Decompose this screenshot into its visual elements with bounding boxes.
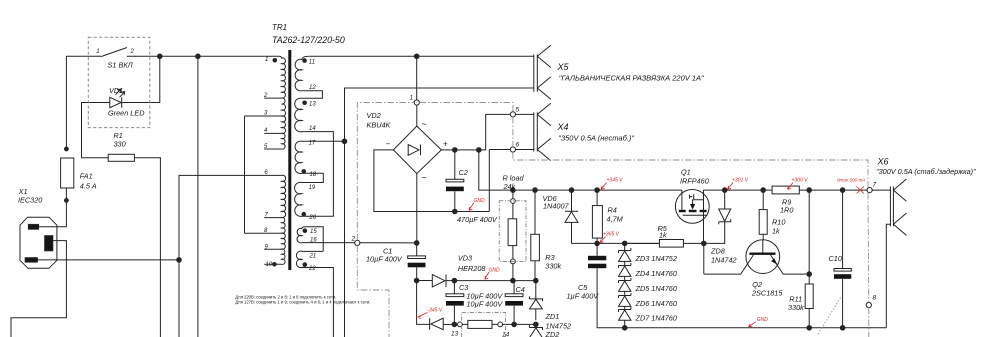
svg-text:14: 14 [309, 126, 316, 132]
junction emitter R11 [807, 272, 812, 277]
svg-text:1k: 1k [772, 227, 780, 236]
junction ZD8 top [722, 188, 727, 193]
wire VD4 to circle13 [443, 323, 457, 325]
wire pin16 to node2 [302, 242, 415, 244]
LED VD1 [110, 97, 122, 107]
svg-text:1: 1 [96, 49, 99, 55]
svg-text:4,7M: 4,7M [607, 215, 624, 224]
switch S1 [103, 48, 127, 56]
svg-text:TR1: TR1 [272, 23, 287, 32]
X1 pin middle [45, 236, 53, 251]
svg-text:1k: 1k [659, 231, 667, 240]
svg-text:13: 13 [451, 331, 459, 337]
red marks [418, 183, 864, 327]
node 5 circle [510, 112, 515, 117]
resistor R load [512, 203, 514, 259]
primary pin numbers [263, 57, 273, 268]
wire node6 to X4 [489, 150, 534, 212]
leader +301 [728, 183, 734, 190]
zener stack wire [624, 243, 626, 327]
svg-text:4.5 A: 4.5 A [80, 182, 97, 191]
svg-text:330: 330 [114, 140, 126, 149]
leader +365 [600, 237, 606, 243]
wire rail switch to transformer pin1 [127, 55, 279, 57]
wire rail-dot down crossing to bottom [197, 56, 199, 337]
svg-text:~: ~ [422, 173, 427, 183]
svg-text:1µF 400V: 1µF 400V [567, 292, 600, 301]
zener ZD7 [619, 307, 631, 320]
svg-text:Q1: Q1 [681, 168, 691, 177]
svg-text:+300 V: +300 V [792, 177, 809, 183]
wire bridge minus wrap to gnd rail [374, 150, 489, 212]
secondary winding W3 pins 17-18 [295, 141, 310, 173]
svg-text:16: 16 [310, 237, 317, 243]
svg-text:Для 127В: соединить 1 и 9; сое: Для 127В: соединить 1 и 9; соединить 4 и… [235, 300, 370, 305]
svg-text:VD2: VD2 [367, 111, 381, 120]
diode VD6 [565, 211, 578, 222]
capacitor C5 [588, 256, 606, 260]
wire X1 bottom pin to junction [37, 259, 179, 261]
leader -345 [418, 313, 428, 319]
wire pin17 down to bottom [344, 141, 346, 337]
pin7 circle [867, 188, 872, 193]
+345 rail [479, 150, 682, 190]
wire R1 right down to bottom [134, 158, 160, 337]
svg-text:GND: GND [489, 268, 501, 274]
wire bridge plus [441, 114, 533, 149]
svg-text:21: 21 [309, 253, 317, 259]
zener ZD1 [529, 296, 542, 301]
secondary winding W5 pins 15-16 link over to 21 [302, 227, 323, 252]
svg-text:X4: X4 [557, 122, 569, 132]
svg-text:S1 ВКЛ: S1 ВКЛ [108, 60, 134, 69]
svg-text:2SC1815: 2SC1815 [751, 289, 783, 298]
secondary winding W6 pins 21-22 [296, 251, 323, 267]
diode VD3 [432, 275, 446, 288]
svg-text:ZD3 1N4752: ZD3 1N4752 [635, 254, 677, 263]
pin10 stub [264, 263, 281, 265]
svg-text:+301 V: +301 V [732, 177, 749, 183]
phase dot pin22 [303, 262, 308, 267]
svg-text:470µF 400V: 470µF 400V [457, 215, 498, 224]
svg-text:HER208: HER208 [458, 264, 487, 273]
phase dot pin13 [302, 101, 307, 106]
pin5 stub [264, 148, 281, 150]
svg-text:-345 V: -345 V [428, 308, 443, 314]
svg-text:2: 2 [130, 49, 135, 55]
svg-text:C4: C4 [516, 285, 525, 294]
svg-text:11: 11 [309, 59, 315, 65]
phase dot pin10 [272, 262, 277, 267]
junction C1 bottom [414, 278, 419, 283]
svg-text:C2: C2 [459, 168, 468, 177]
svg-text:1: 1 [265, 57, 268, 63]
junction C10 top [840, 188, 845, 193]
svg-text:14: 14 [502, 332, 510, 337]
svg-text:10: 10 [266, 262, 273, 268]
red voltage labels [428, 177, 866, 322]
svg-text:0max 500 mA: 0max 500 mA [837, 178, 865, 183]
pin3 stub to bracket [245, 115, 282, 117]
resistor R5 [625, 242, 704, 244]
wire fuse to X1 top pin [39, 188, 67, 227]
bridge rectifier VD2 diamond [393, 126, 441, 174]
wire gate to Q2 collector [703, 243, 705, 274]
svg-text:ZD8: ZD8 [710, 247, 726, 256]
svg-text:330k: 330k [788, 303, 804, 312]
svg-text:~: ~ [422, 119, 427, 129]
R load bottom circle [511, 259, 516, 264]
svg-text:C10: C10 [829, 254, 842, 263]
transistor Q2 [746, 240, 780, 274]
svg-text:TA262-127/220-50: TA262-127/220-50 [272, 35, 345, 45]
pin2 stub [264, 97, 281, 99]
link pins 18-19 [310, 173, 324, 182]
phase dot pin11 [302, 58, 307, 63]
leader GND2 [485, 272, 489, 279]
phase dot pin15 [303, 228, 308, 233]
svg-text:KBU4K: KBU4K [367, 121, 392, 130]
capacitor C4 [505, 294, 523, 297]
wire X1 middle pin down and left [11, 241, 66, 337]
wire bridge bottom to node2 line [416, 174, 418, 243]
bridge inner diode [408, 145, 420, 156]
leader GND1 [469, 203, 474, 210]
svg-text:20: 20 [308, 215, 316, 221]
junction R10 top [761, 188, 766, 193]
link pins 14-20 [310, 132, 334, 217]
svg-text:"300V 0.5A (стаб./задержка)": "300V 0.5A (стаб./задержка)" [876, 167, 976, 176]
R3 column [533, 188, 538, 193]
wire top rail from fuse to switch [66, 56, 103, 149]
svg-text:ZD2: ZD2 [545, 330, 560, 337]
phase dot pin20 [302, 212, 307, 217]
svg-text:2: 2 [263, 93, 268, 99]
primary winding B pins6-10 [282, 175, 286, 264]
bracket wire pin3 to pin8 [244, 116, 246, 233]
connector X6 [890, 187, 893, 227]
svg-text:24k: 24k [503, 182, 516, 191]
wire VD1 anode to R1 [82, 103, 110, 158]
wire VD3 to R3 column [446, 280, 536, 282]
svg-text:"ГАЛЬВАНИЧЕСКАЯ РАЗВЯЗКА 220V: "ГАЛЬВАНИЧЕСКАЯ РАЗВЯЗКА 220V 1А" [559, 74, 704, 83]
R load column [511, 188, 516, 193]
svg-text:X6: X6 [877, 157, 889, 167]
connector X4 [534, 112, 538, 151]
zener ZD3 [619, 248, 631, 266]
capacitor C2 [446, 179, 464, 182]
dash-dot box R load [499, 201, 526, 262]
leader +300 [788, 183, 794, 190]
secondary winding W1 pins 11-12 [295, 56, 309, 91]
wire pin17 junction [310, 140, 345, 142]
MOSFET Q1 [675, 190, 709, 224]
wire pin22 down [310, 268, 334, 337]
capacitor C3 [446, 294, 464, 297]
wire rail to X6 pin7 [843, 189, 891, 191]
wire X5 second pin from pin17 [345, 88, 534, 141]
wire minus345 branch [417, 281, 430, 325]
dash-dot module boundary [357, 103, 869, 337]
svg-text:22: 22 [308, 266, 316, 272]
capacitor C10 [834, 269, 851, 272]
X1 pin top [28, 224, 38, 229]
junction VD3 C3 [452, 278, 457, 283]
svg-text:12: 12 [309, 85, 316, 91]
svg-text:VD1: VD1 [109, 86, 123, 95]
secondary winding W2 pins 13-14 [295, 98, 310, 132]
svg-text:1N4007: 1N4007 [543, 202, 570, 211]
secondary winding W4 pins 19-20 [295, 182, 310, 216]
svg-text:+: + [443, 140, 448, 149]
secondary pin numbers [308, 59, 317, 272]
resistor R2 [462, 323, 497, 325]
svg-text:+365 V: +365 V [603, 232, 620, 238]
svg-text:8: 8 [873, 295, 877, 302]
pin9 stub [264, 248, 281, 250]
svg-text:R10: R10 [772, 218, 785, 227]
svg-text:1R0: 1R0 [780, 206, 793, 215]
resistor R11 [808, 274, 810, 328]
Q1 source rail out [704, 190, 773, 243]
dashed box S1 VD1 [88, 37, 150, 127]
svg-text:X5: X5 [557, 62, 570, 72]
svg-text:−: − [386, 140, 391, 149]
svg-text:6: 6 [516, 142, 520, 149]
resistor R4 [596, 190, 598, 243]
junction C3 bottom [452, 322, 457, 327]
primary winding A pins1-5 [279, 56, 286, 149]
svg-text:ZD4 1N4760: ZD4 1N4760 [635, 269, 677, 278]
svg-text:VD3: VD3 [458, 254, 472, 263]
phase dot pin1 [273, 58, 278, 63]
VD6 column [569, 188, 574, 193]
node 1 circle [414, 100, 419, 105]
wire pin11 rail to bridge and X5 [310, 55, 534, 57]
X1 pin bottom [25, 258, 37, 262]
junction C1 top [414, 241, 419, 246]
wire 14 to C4 bottom [503, 323, 536, 325]
svg-text:+345 V: +345 V [607, 177, 624, 183]
pin4 stub [264, 132, 281, 134]
dashed box R2 [462, 313, 506, 337]
link pins 12-13 [310, 91, 323, 99]
svg-text:"350V 0.5A (нестаб.)": "350V 0.5A (нестаб.)" [558, 133, 634, 142]
svg-text:1N4742: 1N4742 [711, 256, 737, 265]
zener ZD8 [719, 209, 731, 221]
transformer TR1 core [288, 50, 291, 270]
junction +345 drop [477, 148, 482, 153]
measurement cross X6 [857, 186, 865, 193]
pin circle 14 [498, 322, 503, 327]
junction C2 top [453, 148, 458, 153]
svg-text:ZD6 1N4760: ZD6 1N4760 [635, 299, 677, 308]
R load top circle [511, 199, 516, 204]
svg-text:GND: GND [474, 198, 486, 204]
fuse FA1 [61, 158, 74, 188]
junction C4 bottom [512, 322, 517, 327]
svg-text:IRFP460: IRFP460 [680, 177, 709, 186]
resistor R9 [772, 186, 799, 194]
wire node1 to bridge top [416, 105, 418, 126]
svg-text:10µF 400V: 10µF 400V [467, 300, 504, 309]
connector X5 [534, 55, 538, 92]
pin circle 13 [458, 322, 463, 327]
svg-text:Green LED: Green LED [108, 108, 145, 117]
dotted leader C10 [818, 297, 841, 334]
node junction rail-pin6line [196, 54, 201, 59]
svg-text:5: 5 [516, 107, 520, 114]
wire emitter to rail [808, 190, 810, 274]
node 2 circle [355, 240, 360, 245]
diode VD4 [430, 318, 444, 330]
svg-text:R4: R4 [608, 206, 617, 215]
svg-text:IEC320: IEC320 [18, 195, 42, 204]
leader +345 [601, 183, 607, 190]
wire gnd2 rail left [417, 280, 433, 282]
svg-text:10µF 400V: 10µF 400V [366, 255, 403, 264]
junction X1 neutral [177, 258, 182, 263]
svg-text:13: 13 [309, 101, 316, 107]
connector X1 IEC320 outline [20, 217, 57, 268]
leader GND3 [749, 322, 756, 327]
svg-text:FA1: FA1 [80, 172, 93, 181]
pin8 stub to bracket [245, 232, 282, 234]
zener ZD5 [619, 278, 631, 296]
svg-text:ZD7 1N4760: ZD7 1N4760 [635, 314, 677, 323]
pin8 circle [866, 302, 871, 307]
wire VD1 cathode branch [122, 56, 160, 102]
svg-text:ZD1: ZD1 [545, 312, 560, 321]
pin7 stub [264, 217, 281, 219]
svg-text:2: 2 [351, 236, 356, 243]
junction stack bottom [622, 326, 627, 331]
resistor R1 [108, 154, 134, 161]
zener ZD6 [619, 293, 631, 310]
junction C2 bottom gnd [453, 209, 458, 214]
phase dot pin18 [302, 169, 307, 174]
wire rail to node1 [416, 56, 418, 100]
svg-text:7: 7 [873, 182, 877, 189]
svg-text:18: 18 [309, 172, 316, 178]
wire neutral vertical to pin6 stub [179, 175, 282, 337]
resistor R3 [534, 190, 536, 281]
wire X6 pin8 fork [886, 224, 890, 328]
capacitor C1 [408, 256, 426, 259]
R4 column [595, 188, 600, 193]
junction ZD1 bottom [534, 322, 539, 327]
svg-text:15: 15 [310, 229, 317, 235]
+365 wire [572, 242, 660, 244]
junction zener stack top [622, 241, 627, 246]
zener ZD2 [529, 324, 542, 337]
zener ZD4 [619, 263, 631, 281]
svg-text:1: 1 [410, 95, 414, 102]
node junction rail-VD1 [158, 54, 163, 59]
svg-text:330k: 330k [545, 262, 561, 271]
svg-text:19: 19 [309, 185, 316, 191]
resistor R10 [762, 190, 764, 239]
junction gate node [702, 241, 707, 246]
node 6 circle [510, 147, 515, 152]
svg-text:ZD5 1N4760: ZD5 1N4760 [635, 284, 677, 293]
svg-text:GND: GND [757, 317, 769, 323]
svg-text:17: 17 [309, 140, 316, 146]
